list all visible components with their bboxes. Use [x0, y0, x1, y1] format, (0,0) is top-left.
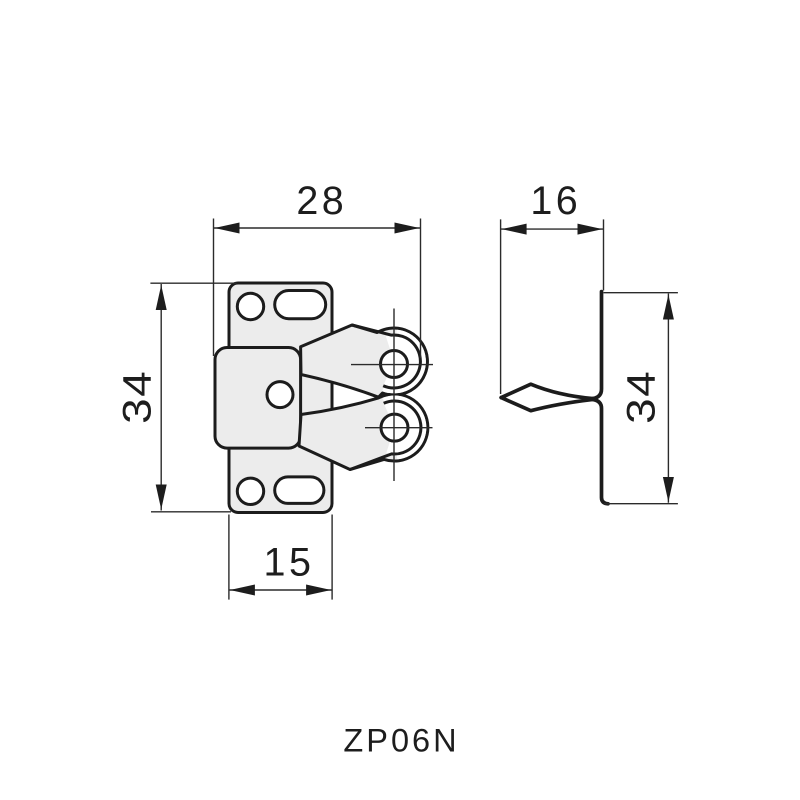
front view: top roller disc edge arc — [352, 325, 420, 388]
front view: bottom roller disc edge arc — [350, 401, 421, 469]
svg-text:ZP06N: ZP06N — [343, 723, 459, 759]
dimension 28: right arrowhead — [395, 223, 420, 234]
dimension 15: left arrowhead — [230, 585, 255, 596]
dimension 34 front: bottom arrowhead — [156, 485, 167, 510]
dimension 15: right arrowhead — [306, 585, 331, 596]
dimension 16: dimension line — [501, 228, 604, 230]
front view: top roller hub — [381, 351, 408, 378]
svg-text:16: 16 — [530, 179, 581, 223]
front view: top oblong slot — [275, 291, 326, 319]
dimension 28: extension line right — [420, 219, 422, 359]
dimension 15: dimension line — [229, 589, 332, 591]
dimension 34 side: extension line bottom — [604, 503, 678, 505]
dimension 16: left arrowhead — [502, 224, 527, 235]
side view: plate profile upper segment — [593, 292, 602, 399]
front view: bottom roller centerline horizontal — [365, 427, 433, 429]
front view: bottom arm — [299, 394, 428, 469]
dimension 34 front: dimension line — [160, 284, 162, 511]
front view: bottom roller white gap band — [383, 396, 427, 460]
dimension 34 front: extension line top — [150, 282, 236, 284]
dimension 16: right arrowhead — [578, 224, 603, 235]
front view: bottom oblong slot — [275, 477, 324, 504]
front view: catch body — [215, 348, 301, 449]
front view: top arm — [301, 325, 428, 397]
dimension 28: left arrowhead — [215, 223, 240, 234]
front view: top roller disc white — [368, 335, 421, 388]
dimension 34 side: extension line top — [604, 292, 678, 294]
svg-text:28: 28 — [296, 179, 347, 223]
svg-text:34: 34 — [619, 369, 663, 423]
front view: bottom roller disc white — [368, 401, 421, 454]
dimension 34 front: top arrowhead — [156, 285, 167, 310]
dimension 28: dimension line — [214, 227, 421, 229]
svg-text:34: 34 — [115, 369, 159, 423]
front view: top roller white gap band — [382, 330, 426, 394]
dimension 16: extension line right — [603, 219, 605, 290]
svg-text:15: 15 — [264, 541, 315, 585]
dimension 15: extension line left — [228, 515, 230, 600]
dimension 34 side: top arrowhead — [663, 295, 674, 320]
dimension 34 front: extension line bottom — [151, 511, 231, 513]
front view: top round hole — [237, 293, 263, 319]
dimension 34 side: bottom arrowhead — [663, 477, 674, 502]
side view: plate profile lower segment — [593, 400, 608, 504]
side view: roller lens upper edge — [501, 384, 593, 398]
front view: bottom roller gray wedge — [367, 402, 395, 453]
front view: top roller gray wedge — [366, 335, 394, 386]
dimension 16: extension line left — [500, 219, 502, 394]
front view: body center circle — [267, 382, 293, 408]
front view: bottom roller hub — [381, 414, 408, 441]
front view: bottom round hole — [237, 478, 263, 504]
dimension 34 side: dimension line — [667, 294, 669, 503]
front view: roller centerline vertical — [393, 309, 395, 482]
front view: mounting plate — [229, 283, 332, 513]
front view: top roller centerline horizontal — [351, 364, 433, 366]
dimension 28: extension line left — [213, 219, 215, 357]
side view: roller lens lower edge — [501, 398, 593, 411]
dimension 15: extension line right — [331, 515, 333, 600]
